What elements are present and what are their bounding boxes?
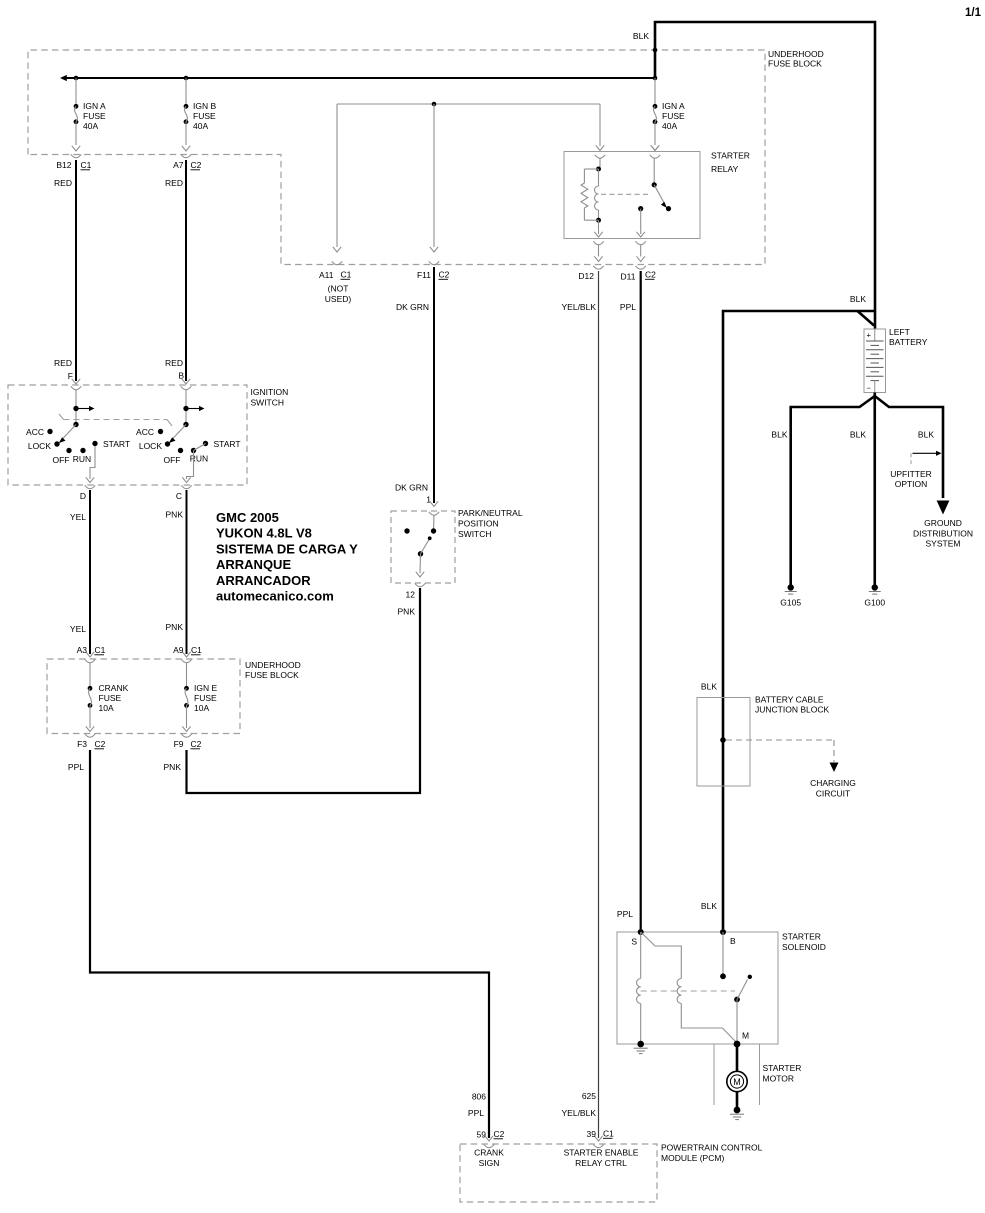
wire YEL (ignition D to crank fuse) — [70, 490, 94, 657]
svg-text:PNK: PNK — [164, 762, 182, 772]
upfitter option arrow — [890, 451, 941, 489]
svg-text:RUN: RUN — [190, 454, 208, 464]
wire PPL (relay D11 to starter solenoid S) — [617, 271, 641, 929]
svg-text:JUNCTION BLOCK: JUNCTION BLOCK — [755, 705, 829, 715]
svg-text:DISTRIBUTION: DISTRIBUTION — [913, 528, 973, 538]
label POWERTRAIN CONTROL MODULE (PCM) — [661, 1143, 763, 1164]
svg-text:YUKON 4.8L V8: YUKON 4.8L V8 — [216, 526, 312, 541]
svg-text:FUSE: FUSE — [83, 111, 106, 121]
svg-text:POSITION: POSITION — [458, 519, 499, 529]
solenoid hold-in coil branch — [637, 932, 641, 1044]
connector C2 pin F3 — [77, 734, 106, 749]
svg-text:YEL/BLK: YEL/BLK — [562, 1108, 597, 1118]
svg-text:LOCK: LOCK — [139, 441, 162, 451]
dashed wire to charging circuit — [726, 740, 856, 798]
underhood fuse block (top) dashed outline — [28, 50, 765, 265]
svg-text:D11: D11 — [621, 272, 636, 282]
svg-text:OFF: OFF — [53, 455, 70, 465]
svg-text:CRANK: CRANK — [99, 683, 129, 693]
fuse IGN E 10A — [182, 663, 217, 732]
svg-text:STARTER: STARTER — [782, 932, 821, 942]
wire BLK battery positive branch to junction block — [723, 311, 875, 929]
wire PNK (ignition C to IGN E fuse) — [166, 490, 191, 657]
svg-text:SWITCH: SWITCH — [251, 398, 285, 408]
svg-text:BLK: BLK — [701, 682, 717, 692]
svg-text:DK GRN: DK GRN — [396, 302, 429, 312]
label LEFT BATTERY — [889, 327, 928, 347]
svg-text:MOTOR: MOTOR — [763, 1074, 794, 1084]
svg-text:M: M — [733, 1077, 741, 1087]
connector C1 pin A9 — [173, 645, 202, 663]
svg-text:G100: G100 — [864, 598, 885, 608]
svg-text:YEL: YEL — [70, 624, 86, 634]
wire A11 (not used) — [332, 104, 342, 265]
svg-text:UNDERHOOD: UNDERHOOD — [245, 660, 301, 670]
solenoid switch contacts — [720, 932, 752, 1044]
svg-text:+: + — [867, 331, 872, 340]
label BLK (above junction block) — [701, 682, 717, 692]
svg-text:RED: RED — [165, 178, 183, 188]
solenoid ground — [634, 1041, 648, 1054]
label BLK (above starter solenoid) — [701, 901, 717, 911]
relay output D12 exit — [593, 232, 603, 269]
svg-text:1/1: 1/1 — [965, 7, 982, 19]
node: bus junction at IGN A fuse (left) — [74, 76, 79, 81]
svg-text:B: B — [730, 936, 736, 946]
svg-text:POWERTRAIN CONTROL: POWERTRAIN CONTROL — [661, 1143, 763, 1153]
svg-text:START: START — [214, 439, 241, 449]
node: bus junction at right IGN A fuse — [653, 76, 658, 81]
connector pin 12 — [398, 590, 416, 617]
wire BLK battery negative splits — [791, 393, 943, 586]
powertrain control module dashed box — [460, 1144, 657, 1202]
connector C2 pin F9 — [174, 734, 202, 749]
node: BLK wire on fuse block border — [653, 48, 658, 53]
svg-text:(NOT: (NOT — [328, 284, 349, 294]
svg-text:−: − — [867, 384, 872, 393]
svg-text:IGN E: IGN E — [194, 683, 217, 693]
wire RED right (A7 to ignition switch B) — [165, 160, 190, 384]
svg-text:F9: F9 — [174, 739, 184, 749]
svg-text:GROUND: GROUND — [924, 518, 962, 528]
node: solenoid M terminal — [734, 1031, 749, 1048]
svg-text:IGN A: IGN A — [83, 101, 106, 111]
svg-text:G105: G105 — [780, 598, 801, 608]
ground G105 — [780, 584, 801, 607]
arrow to ground distribution system — [913, 501, 973, 549]
svg-text:ARRANQUE: ARRANQUE — [216, 557, 291, 572]
svg-text:10A: 10A — [99, 703, 114, 713]
svg-text:PNK: PNK — [166, 510, 184, 520]
svg-text:OPTION: OPTION — [895, 479, 928, 489]
connector C1 pin A11 (NOT USED) — [319, 270, 352, 305]
svg-text:RUN: RUN — [73, 454, 91, 464]
park/neutral position switch dashed box — [391, 511, 455, 583]
svg-text:A11: A11 — [319, 270, 334, 280]
svg-text:PNK: PNK — [398, 607, 416, 617]
svg-text:40A: 40A — [662, 121, 677, 131]
ignition switch dashed box — [8, 385, 247, 485]
svg-text:39: 39 — [587, 1129, 597, 1139]
svg-text:F3: F3 — [77, 739, 87, 749]
svg-text:BLK: BLK — [633, 31, 649, 41]
svg-text:LOCK: LOCK — [28, 441, 51, 451]
fuse CRANK 10A — [86, 663, 129, 732]
wire: gray rail from A11/F11 to starter relay coil — [337, 103, 600, 105]
battery LEFT BATTERY — [864, 329, 886, 393]
svg-text:RED: RED — [54, 178, 72, 188]
svg-text:LEFT: LEFT — [889, 327, 910, 337]
ground G100 — [864, 584, 885, 607]
svg-text:PPL: PPL — [620, 302, 636, 312]
label BLK (to G105) — [771, 430, 787, 440]
wire DK GRN (F11 to park/neutral switch) — [395, 267, 438, 507]
svg-text:C2: C2 — [645, 270, 656, 280]
svg-text:RED: RED — [54, 358, 72, 368]
wire RED left (B12 to ignition switch F) — [54, 160, 80, 384]
title text block — [216, 510, 358, 604]
ignition switch pole 1 (left) — [26, 386, 130, 488]
label CRANK SIGN — [474, 1148, 504, 1169]
svg-text:C2: C2 — [191, 739, 202, 749]
svg-text:STARTER: STARTER — [711, 151, 750, 161]
relay: starter relay box — [564, 152, 700, 239]
node: junction of F11 wire on rail — [432, 102, 437, 107]
label BATTERY CABLE JUNCTION BLOCK — [755, 695, 829, 715]
svg-text:C1: C1 — [191, 645, 202, 655]
svg-text:PPL: PPL — [617, 909, 633, 919]
underhood fuse block (lower) dashed box — [47, 659, 240, 734]
svg-text:START: START — [103, 439, 130, 449]
connector pin D — [80, 491, 86, 501]
svg-text:M: M — [742, 1031, 749, 1041]
svg-text:12: 12 — [406, 590, 416, 600]
fuse IGN B 40A — [182, 78, 217, 151]
svg-text:C1: C1 — [603, 1129, 614, 1139]
svg-text:USED): USED) — [325, 294, 352, 304]
wire: rail into relay coil — [595, 104, 605, 169]
svg-text:GMC 2005: GMC 2005 — [216, 510, 279, 525]
svg-text:IGN B: IGN B — [193, 101, 216, 111]
label STARTER MOTOR — [763, 1063, 802, 1084]
svg-text:59: 59 — [477, 1130, 487, 1140]
relay output D11 exit — [636, 232, 646, 269]
svg-text:A3: A3 — [77, 645, 88, 655]
svg-text:FUSE: FUSE — [99, 693, 122, 703]
solenoid mechanical link (dashed) — [641, 990, 735, 992]
connector C2 pin F11 — [417, 270, 450, 281]
svg-text:DK GRN: DK GRN — [395, 483, 428, 493]
svg-text:C1: C1 — [95, 645, 106, 655]
svg-text:F11: F11 — [417, 270, 431, 280]
label BLK (top) — [633, 31, 649, 41]
svg-text:BATTERY CABLE: BATTERY CABLE — [755, 695, 824, 705]
wire BLK from bus up to battery feed — [655, 22, 875, 329]
svg-text:PNK: PNK — [166, 622, 184, 632]
wire labels 625 YEL/BLK into PCM — [562, 1091, 615, 1148]
label PARK/NEUTRAL POSITION SWITCH — [458, 508, 523, 539]
svg-text:D: D — [80, 491, 86, 501]
svg-text:BLK: BLK — [771, 430, 787, 440]
label BLK (to ground distribution) — [918, 430, 934, 440]
svg-text:CIRCUIT: CIRCUIT — [816, 788, 850, 798]
svg-text:ACC: ACC — [26, 427, 44, 437]
starter motor M — [727, 1044, 747, 1110]
label BLK (to G100) — [850, 430, 866, 440]
svg-text:CRANK: CRANK — [474, 1148, 504, 1158]
svg-text:FUSE BLOCK: FUSE BLOCK — [245, 670, 299, 680]
ignition switch mechanical link (dashed) — [59, 414, 172, 426]
svg-text:A7: A7 — [173, 160, 184, 170]
svg-text:RELAY: RELAY — [711, 164, 739, 174]
svg-text:STARTER ENABLE: STARTER ENABLE — [564, 1148, 639, 1158]
svg-text:ARRANCADOR: ARRANCADOR — [216, 573, 311, 588]
svg-text:RED: RED — [165, 358, 183, 368]
svg-text:UPFITTER: UPFITTER — [890, 469, 932, 479]
svg-text:C2: C2 — [95, 739, 106, 749]
relay coil parallel resistor — [581, 169, 599, 220]
svg-text:PPL: PPL — [68, 762, 84, 772]
svg-text:806: 806 — [472, 1092, 486, 1102]
node: bus junction at IGN B fuse — [184, 76, 189, 81]
svg-text:FUSE: FUSE — [193, 111, 216, 121]
label UNDERHOOD FUSE BLOCK (top) — [768, 49, 824, 69]
label STARTER ENABLE RELAY CTRL — [564, 1148, 639, 1169]
park/neutral switch contacts — [404, 512, 439, 587]
wire: top feed bus with left arrow — [60, 75, 655, 81]
svg-text:C1: C1 — [341, 270, 352, 280]
svg-text:C2: C2 — [191, 160, 202, 170]
svg-text:C1: C1 — [81, 160, 92, 170]
solenoid pull-in coil branch — [641, 932, 737, 1043]
starter solenoid box — [617, 932, 778, 1044]
svg-text:BLK: BLK — [701, 901, 717, 911]
svg-text:IGN A: IGN A — [662, 101, 685, 111]
svg-text:B: B — [178, 371, 184, 381]
connector C1 pin B12 — [56, 154, 91, 170]
ignition switch pole 2 (right) — [136, 386, 241, 488]
svg-text:40A: 40A — [83, 121, 98, 131]
connector pin C — [176, 491, 182, 501]
connector pin D12 — [578, 271, 594, 281]
svg-text:YEL/BLK: YEL/BLK — [562, 302, 597, 312]
svg-text:PPL: PPL — [468, 1108, 484, 1118]
svg-text:SWITCH: SWITCH — [458, 529, 492, 539]
wire PNK (IGN E fuse F9 to park/neutral switch 12) — [164, 588, 420, 793]
label BLK (at battery) — [850, 294, 866, 304]
svg-text:SIGN: SIGN — [479, 1158, 500, 1168]
page number 1/1 — [965, 7, 982, 19]
svg-text:CHARGING: CHARGING — [810, 778, 856, 788]
wire F11 drop from rail — [429, 104, 439, 265]
svg-text:FUSE: FUSE — [662, 111, 685, 121]
svg-text:PARK/NEUTRAL: PARK/NEUTRAL — [458, 508, 523, 518]
fuse IGN A 40A (right, feeds relay) — [650, 78, 685, 158]
label STARTER RELAY — [711, 151, 750, 175]
starter motor bracket — [714, 1044, 760, 1105]
battery cable junction block box — [697, 698, 750, 787]
node: solenoid S terminal — [631, 929, 643, 947]
svg-text:STARTER: STARTER — [763, 1063, 802, 1073]
wire labels 806 PPL into PCM — [468, 1092, 505, 1148]
svg-text:MODULE (PCM): MODULE (PCM) — [661, 1153, 724, 1163]
connector C2 pin A7 — [173, 154, 202, 170]
connector C1 pin A3 — [77, 645, 106, 663]
node: junction block tap — [720, 737, 726, 743]
relay mechanical link (dashed) — [601, 193, 651, 195]
svg-text:FUSE BLOCK: FUSE BLOCK — [768, 59, 822, 69]
connector C2 pin D11 — [621, 270, 657, 282]
label UNDERHOOD FUSE BLOCK (lower) — [245, 660, 301, 680]
label IGNITION SWITCH — [251, 387, 289, 408]
svg-text:SISTEMA DE CARGA Y: SISTEMA DE CARGA Y — [216, 541, 358, 556]
wire YEL/BLK (relay D12 to PCM 39) — [562, 271, 599, 1138]
svg-text:S: S — [631, 937, 637, 947]
svg-text:IGNITION: IGNITION — [251, 387, 289, 397]
node: solenoid B terminal — [720, 929, 736, 946]
svg-text:OFF: OFF — [164, 455, 181, 465]
starter motor ground — [730, 1107, 744, 1120]
svg-text:BLK: BLK — [850, 294, 866, 304]
svg-text:625: 625 — [582, 1091, 596, 1101]
svg-text:A9: A9 — [173, 645, 184, 655]
svg-text:FUSE: FUSE — [194, 693, 217, 703]
svg-text:40A: 40A — [193, 121, 208, 131]
svg-text:C2: C2 — [494, 1129, 505, 1139]
label STARTER SOLENOID — [782, 932, 826, 953]
svg-text:automecanico.com: automecanico.com — [216, 589, 334, 604]
relay switch — [638, 158, 671, 234]
relay coil — [595, 167, 602, 235]
svg-text:BLK: BLK — [918, 430, 934, 440]
svg-text:D12: D12 — [578, 271, 594, 281]
svg-text:SYSTEM: SYSTEM — [926, 539, 961, 549]
wire: relay switch feed collar — [651, 145, 659, 150]
svg-text:10A: 10A — [194, 703, 209, 713]
svg-text:C2: C2 — [439, 270, 450, 280]
svg-text:ACC: ACC — [136, 427, 154, 437]
svg-text:SOLENOID: SOLENOID — [782, 942, 826, 952]
svg-text:UNDERHOOD: UNDERHOOD — [768, 49, 824, 59]
svg-text:B12: B12 — [56, 160, 71, 170]
svg-text:RELAY CTRL: RELAY CTRL — [575, 1158, 627, 1168]
fuse IGN A 40A (left) — [72, 78, 106, 151]
svg-text:YEL: YEL — [70, 512, 86, 522]
svg-text:BLK: BLK — [850, 430, 866, 440]
svg-text:C: C — [176, 491, 182, 501]
svg-text:BATTERY: BATTERY — [889, 337, 928, 347]
wire PPL (crank fuse F3 to PCM 59) — [68, 750, 489, 1138]
